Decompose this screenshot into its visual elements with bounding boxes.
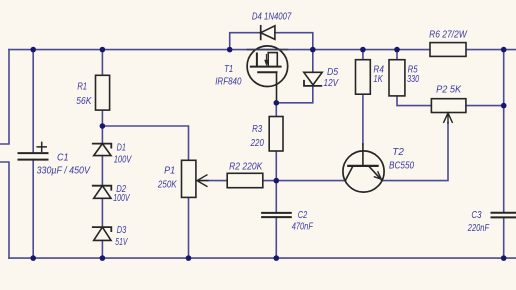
wire P1 bottom [188,197,190,258]
potentiometer P2 body [431,99,466,113]
zener D3 bar [93,227,112,231]
svg-text:D5: D5 [327,67,339,78]
wire D4 left riser [230,33,261,50]
resistor R1 [96,75,110,110]
svg-text:D3: D3 [117,225,127,236]
svg-text:12V: 12V [324,78,340,89]
svg-text:100V: 100V [114,155,133,166]
transistor T2 collector lead [362,151,364,166]
capacitor C2 plates [262,213,291,217]
zener D2 bar [93,186,112,190]
wire C1 top branch [32,50,34,154]
wire C1 bottom branch [32,160,34,259]
svg-text:R2 220K: R2 220K [229,162,263,173]
transistor T2 emitter with arrow [370,167,382,180]
wire D1 to D2 [101,156,103,186]
svg-text:R1: R1 [77,81,87,92]
wire D5 bottom to gate node [276,86,313,103]
transistor T2 base lead-in [345,167,352,181]
wire right rail lower [503,217,505,258]
wire R4 bottom to T2 collector [362,94,364,144]
wire T2 emitter to P2 wiper [382,123,448,181]
capacitor C3 plates [492,213,516,218]
svg-text:D1: D1 [117,142,126,153]
zener D5 triangle [304,72,322,85]
wire right rail upper [503,50,505,213]
wire R5 bottom to P2 left [397,96,431,106]
wire D5 top [312,50,314,73]
svg-text:330: 330 [407,74,419,85]
wire R5 top [396,50,398,60]
wire D2 to D3 [101,198,103,227]
svg-text:470nF: 470nF [292,222,314,233]
svg-text:51V: 51V [115,237,128,248]
wire bottom rail [9,257,516,259]
resistor R6 [430,43,466,57]
wire R2 to T2 base [263,180,346,182]
mosfet T1 drain chord [247,49,287,51]
svg-text:250K: 250K [157,180,178,191]
potentiometer P1 body [182,160,196,197]
svg-text:100V: 100V [113,193,130,204]
resistor R4 [356,60,371,94]
wire left rail lower with input stub [0,162,9,258]
svg-text:P1: P1 [164,166,175,177]
svg-text:C1: C1 [57,153,69,164]
svg-text:T2: T2 [392,147,404,158]
wire D4 right riser [275,33,313,50]
zener D1 triangle [94,144,111,156]
wire P1 wiper to R2 [198,180,228,182]
svg-text:R6 27/2W: R6 27/2W [429,29,468,40]
svg-text:330µF / 450V: 330µF / 450V [37,166,91,177]
potentiometer P1 wiper arrow [197,175,208,187]
resistor R2 [227,173,263,187]
wire C2 bottom [275,217,277,258]
svg-text:BC550: BC550 [389,161,414,172]
potentiometer P2 wiper arrow [444,113,453,123]
wire R4 top [362,50,364,60]
mosfet T1 internals [251,53,281,103]
resistor R5 [389,60,405,96]
wire left rail upper with input stub [0,50,9,144]
transistor T2 base bar [348,165,377,167]
zener D5 bar [304,81,321,86]
svg-text:D4 1N4007: D4 1N4007 [252,11,292,22]
svg-text:P2 5K: P2 5K [436,85,462,96]
wire node A to P1 top [102,126,188,160]
wire top rail [9,49,516,51]
mosfet T1 body circle [247,46,288,87]
wire R1 bottom to D1 [101,110,103,144]
wire D3 to bottom rail [101,240,103,258]
zener D2 triangle [94,186,111,199]
svg-text:C3: C3 [471,210,481,221]
svg-text:220nF: 220nF [467,223,490,234]
diode D4 cathode bar [260,26,262,40]
resistor R3 [269,117,283,152]
svg-text:220: 220 [250,138,264,149]
svg-text:T1: T1 [224,64,233,75]
capacitor C1 plates [19,153,48,160]
wire R3 bottom to node B [275,151,277,181]
svg-text:R3: R3 [252,124,262,135]
wire gate node to R3 top [275,103,277,117]
svg-text:IRF840: IRF840 [215,76,242,87]
transistor T2 body circle [343,151,384,192]
zener D3 triangle [94,227,111,240]
wire node B to C2 [275,181,277,213]
capacitor C1 polarity plus [37,142,46,151]
T2 collector lead outer [362,144,364,151]
wire R1 top [101,50,103,76]
diode D4 triangle [261,26,275,40]
svg-text:1K: 1K [373,74,383,85]
svg-text:C2: C2 [298,210,308,221]
wire P2 right to right rail [466,105,504,107]
zener D1 bar [93,144,112,148]
svg-text:56K: 56K [76,96,92,107]
